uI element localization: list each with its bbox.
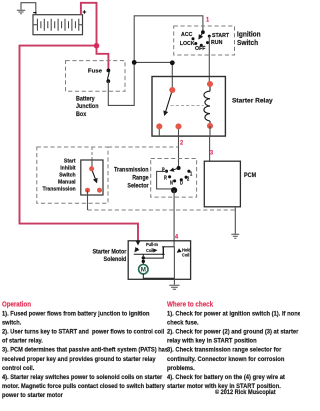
svg-text:M: M [141, 267, 146, 274]
